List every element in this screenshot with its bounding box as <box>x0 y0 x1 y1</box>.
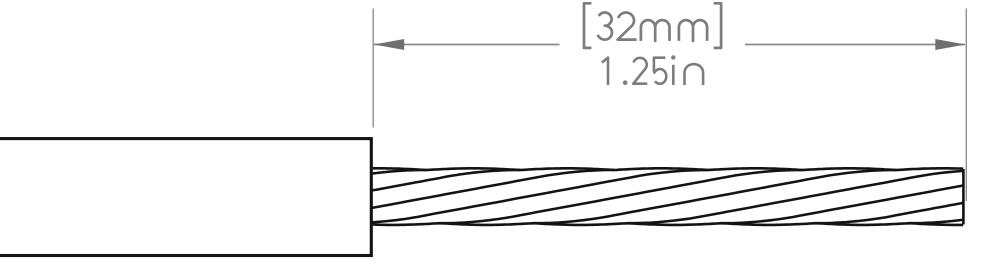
glyph digit 1 <box>602 58 608 85</box>
glyph digit 3 <box>598 13 612 40</box>
strand boundary line 3 <box>373 170 614 208</box>
strand boundary line 5 <box>440 170 802 223</box>
dimension line left segment <box>374 44 560 46</box>
strand boundary line 8 <box>722 186 963 224</box>
cable jacket (insulation) <box>0 139 371 256</box>
right arrowhead <box>935 39 965 50</box>
right extension line <box>965 9 967 202</box>
strand boundary line 4 <box>373 170 708 222</box>
strand boundary line 7 <box>628 171 963 223</box>
glyph bracket-right <box>714 3 721 48</box>
glyph letter m <box>641 20 670 41</box>
stranded wire: bottom edge <box>373 223 963 225</box>
left extension line <box>372 9 374 128</box>
glyph digit 2 <box>618 13 637 40</box>
stranded wire: top edge <box>373 168 963 170</box>
glyph letter i <box>672 65 675 85</box>
left arrowhead <box>374 39 404 50</box>
strand boundary line 2 <box>373 170 520 190</box>
wire cut end (right) <box>962 169 965 224</box>
glyph digit 5 <box>654 58 666 84</box>
dot of letter i <box>671 55 675 59</box>
strand boundary line 1 <box>373 170 426 174</box>
dimension text [32mm] <box>584 3 721 85</box>
dimension line right segment <box>745 44 965 46</box>
glyph letter n <box>685 64 704 85</box>
glyph digit 2 <box>633 58 647 84</box>
glyph bracket-left <box>584 3 591 48</box>
strand boundary line 10 <box>910 220 963 224</box>
strand boundary line 6 <box>534 170 896 223</box>
decimal point of 1.25 <box>623 80 628 85</box>
glyph letter m <box>679 20 707 41</box>
strand boundary line 9 <box>816 203 963 223</box>
